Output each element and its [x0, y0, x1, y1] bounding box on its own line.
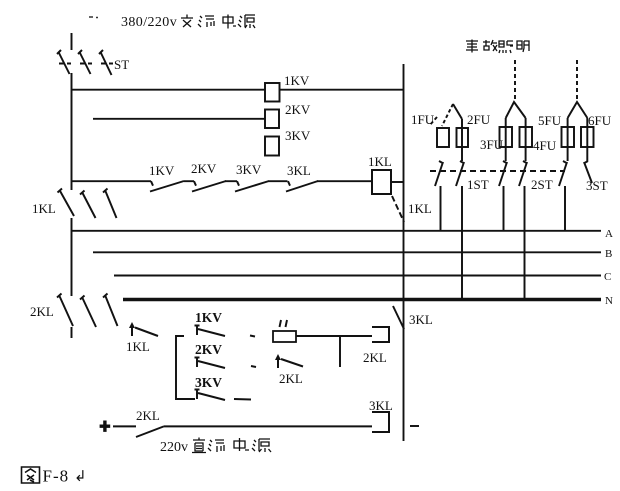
contact 1KL (NO) on main vertical	[392, 196, 404, 222]
svg-text:3FU: 3FU	[480, 137, 504, 152]
wire through fuse 5FU	[567, 118, 569, 161]
coil 2KL (bracket)	[372, 327, 389, 342]
svg-text:2KV: 2KV	[285, 102, 311, 117]
glyph 事	[466, 40, 478, 53]
switch ST mechanical link	[59, 63, 113, 65]
contact 2KV (bold) blade	[195, 357, 226, 368]
wire: tee stub down from control line	[339, 336, 341, 367]
svg-text:2KL: 2KL	[279, 371, 303, 386]
svg-text:2KL: 2KL	[136, 408, 160, 423]
switch 3ST blade b	[584, 161, 593, 183]
svg-text:ST: ST	[114, 57, 129, 72]
contact 3KL on main vertical	[393, 306, 404, 329]
svg-text:1FU: 1FU	[411, 112, 435, 127]
relay coil 1KL	[372, 170, 391, 194]
svg-text:2KV: 2KV	[191, 161, 217, 176]
disconnect 1KL pole 3 blade	[103, 189, 117, 219]
svg-text:4FU: 4FU	[533, 138, 557, 153]
svg-text:↲: ↲	[74, 469, 87, 485]
switch 3ST blade a	[559, 161, 568, 186]
contact 2KL (NO) in dc line	[136, 427, 164, 438]
pseudo CJK: 交流电源 at (180,14)-(256,28)	[181, 15, 255, 29]
dashed drop to lamp 3	[576, 60, 578, 100]
switch 2ST blade a	[499, 161, 508, 186]
svg-text:380/220v: 380/220v	[121, 15, 177, 30]
svg-text:1KL: 1KL	[368, 154, 392, 169]
lamp pair 2 hanger	[506, 102, 526, 118]
wire: incoming supply drop at top left	[71, 33, 73, 50]
svg-text:N: N	[605, 295, 613, 307]
bus B	[93, 251, 601, 253]
terminal dash after 2KV contact	[251, 366, 256, 367]
glyph 流2	[208, 440, 224, 452]
switch ST pole 1 blade	[57, 50, 70, 74]
svg-text:1KV: 1KV	[284, 73, 310, 88]
plus terminal	[100, 421, 111, 432]
fuse 5FU body	[562, 127, 575, 147]
svg-text:3KL: 3KL	[287, 163, 311, 178]
svg-text:2KL: 2KL	[363, 350, 387, 365]
svg-text:6FU: 6FU	[588, 113, 612, 128]
contact 2KL (arrow)	[278, 356, 303, 368]
terminal dash after 1KV contact	[250, 336, 255, 337]
bus N (thick)	[123, 298, 601, 301]
svg-text:2KV: 2KV	[195, 342, 222, 357]
svg-text:3KV: 3KV	[236, 162, 262, 177]
wire through fuse 6FU	[586, 118, 588, 161]
svg-text:A: A	[605, 228, 613, 240]
svg-text:1KL: 1KL	[408, 201, 432, 216]
wire: lamp 1 return to bus N	[461, 186, 463, 300]
contact 1KL (arrow) in control line	[132, 324, 158, 336]
svg-text:2FU: 2FU	[467, 112, 491, 127]
disconnect 2KL pole 1 blade	[57, 294, 73, 327]
svg-text:B: B	[605, 248, 612, 260]
wire: phase line to coil 1KV	[72, 89, 266, 91]
glyph 照	[499, 41, 513, 53]
disconnect 2KL pole 3 blade	[103, 294, 118, 327]
pseudo CJK: 事故照明 at (466,39)-(529,53)	[466, 40, 529, 54]
wire: 1ST left drop to bus A	[440, 186, 442, 231]
svg-text:2ST: 2ST	[531, 177, 553, 192]
glyph 电	[223, 15, 236, 29]
svg-text:2KL: 2KL	[30, 304, 54, 319]
wire: dc line to coil 3KL	[164, 425, 373, 427]
main vertical bus (right of coils)	[403, 64, 405, 441]
relay coil 2KV	[265, 110, 279, 129]
resistor R	[273, 331, 296, 342]
fuse 3FU body	[500, 127, 513, 147]
svg-text:1KV: 1KV	[195, 310, 222, 325]
bus labels	[604, 228, 613, 307]
wire: contact row feeding coil 1KL	[72, 180, 373, 182]
disconnect 1KL pole 1 blade	[58, 189, 75, 217]
switch row mechanical link	[430, 170, 565, 172]
switch ST pole 3 blade	[99, 50, 112, 75]
contact 1KV (bold) blade	[195, 325, 226, 336]
svg-text:220v: 220v	[160, 440, 188, 455]
wire through fuse 2FU	[461, 119, 463, 161]
wire stub below 2KL	[71, 327, 73, 338]
svg-text:3KV: 3KV	[195, 375, 222, 390]
wire: resistor to coil 2KL	[296, 335, 372, 337]
dashed drop to lamp 2	[514, 60, 516, 100]
svg-text:C: C	[604, 271, 611, 283]
fuse 2FU body	[457, 128, 469, 147]
svg-text:1KL: 1KL	[126, 339, 150, 354]
terminal dash after 3KV contact	[234, 398, 251, 401]
wire through fuse 3FU	[505, 118, 507, 161]
glyph 电2	[234, 438, 249, 451]
resistor label ticks	[280, 320, 288, 327]
wire through fuse 4FU	[525, 118, 527, 161]
contact 2KV (NO) blade	[192, 181, 226, 192]
svg-text:5FU: 5FU	[538, 113, 562, 128]
switch 1ST blade a	[435, 161, 444, 186]
wire: lamp 2 return to bus N	[524, 186, 526, 300]
svg-text:3KV: 3KV	[285, 128, 311, 143]
contact 3KV (NO) blade	[235, 181, 269, 192]
wire: 3ST left drop to bus A	[564, 186, 566, 231]
fuse 4FU body	[520, 127, 533, 147]
coil 3KL (bracket)	[372, 412, 389, 432]
bracket joining KV contacts	[176, 336, 195, 399]
glyph 源	[238, 15, 255, 28]
switch ST pole 2 blade	[78, 50, 91, 74]
fuse 6FU body	[581, 127, 594, 147]
relay coil 1KV	[265, 83, 280, 102]
svg-text:3KL: 3KL	[369, 398, 393, 413]
wire: coil 1KL to main vertical	[391, 181, 404, 183]
dc positive terminal wire	[113, 425, 136, 427]
bold KV contact labels	[195, 310, 222, 390]
disconnect 2KL pole 2 blade	[80, 296, 96, 328]
dc negative terminal dash	[410, 425, 419, 427]
glyph 直	[192, 438, 206, 453]
switch 2ST blade b	[519, 161, 528, 186]
lamp pair 3 hanger	[568, 102, 588, 118]
wire: 2ST left drop to bus A	[503, 186, 505, 231]
lamp pair 1 hanger	[453, 104, 462, 119]
svg-text:1KL: 1KL	[32, 201, 56, 216]
wire: coil 1KV to main vertical	[280, 89, 404, 91]
glyph 源2	[252, 439, 271, 452]
glyph 明	[517, 41, 529, 52]
glyph 流	[198, 16, 214, 27]
wire: phase line to coil 2KV	[93, 118, 265, 120]
glyph 故	[483, 40, 497, 51]
svg-text:1ST: 1ST	[467, 177, 489, 192]
contact 3KV (bold) blade	[195, 389, 226, 400]
caption 图F-8	[22, 467, 87, 486]
contact 3KL (NO) blade	[286, 181, 318, 192]
tick marks before supply text	[89, 16, 98, 19]
relay coil 3KV	[265, 137, 279, 156]
contact 1KV (NO) blade	[150, 181, 184, 192]
svg-text:F-8: F-8	[43, 467, 70, 486]
labels (latin)	[30, 57, 612, 423]
wire: left feeder vertical	[71, 73, 73, 190]
svg-text:3ST: 3ST	[586, 178, 608, 193]
glyph 交	[181, 15, 193, 28]
bus A	[72, 230, 602, 232]
svg-text:3KL: 3KL	[409, 312, 433, 327]
switch 1ST blade b	[456, 161, 465, 186]
glyph 图	[22, 467, 40, 483]
disconnect 1KL pole 2 blade	[80, 191, 96, 219]
bus C	[114, 275, 601, 277]
svg-text:1KV: 1KV	[149, 163, 175, 178]
fuse 1FU body	[437, 128, 449, 147]
wire: left vertical below 1KL	[71, 218, 73, 296]
